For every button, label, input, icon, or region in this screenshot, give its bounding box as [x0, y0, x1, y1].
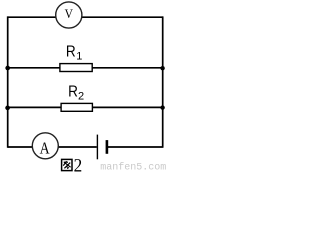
svg-text:V: V — [65, 6, 74, 21]
svg-text:1: 1 — [76, 51, 82, 63]
svg-text:manfen5.com: manfen5.com — [100, 161, 166, 173]
svg-text:2: 2 — [78, 91, 84, 103]
svg-text:2: 2 — [74, 156, 83, 175]
svg-text:R: R — [68, 83, 78, 100]
svg-text:R: R — [66, 44, 76, 61]
svg-text:A: A — [40, 139, 51, 158]
